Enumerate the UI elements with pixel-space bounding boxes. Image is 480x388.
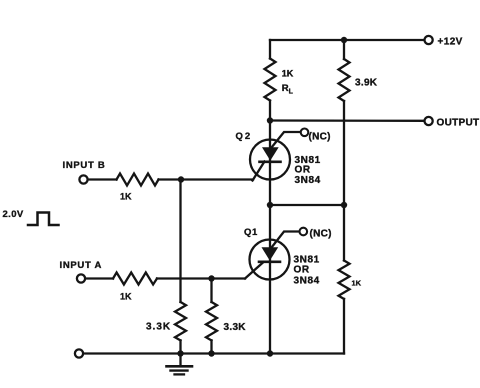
svg-text:3.9K: 3.9K [355,78,378,89]
terminal INPUT B [79,175,87,183]
svg-text:Q1: Q1 [244,227,258,238]
svg-text:INPUT A: INPUT A [60,260,103,271]
svg-text:3N84: 3N84 [294,276,320,287]
node junction input B / 3.3K [178,176,184,182]
terminal bottom left [75,349,83,357]
wire Q1 gate diagonal [245,262,264,279]
wire 3.9K top lead [343,40,345,59]
svg-text:OR: OR [295,165,311,176]
svg-text:1K: 1K [120,292,132,302]
transistor Q1 cathode bar [259,260,280,263]
wire Q1 anode-gate NC lead [272,232,300,248]
wire 3.3K left bottom lead [179,340,181,353]
transistor Q2 triangle [262,147,279,160]
node junction ground [177,350,183,356]
transistor Q2 cathode bar [260,161,281,164]
resistor RL 1K [265,59,276,101]
wire main vertical x=270 [269,101,271,354]
wire Q2 anode-gate NC lead [272,132,301,148]
wire 3.3K right branch vertical [210,279,212,303]
resistor 3.9K [339,59,350,101]
resistor 1K lower right [339,261,350,299]
svg-text:1K: 1K [120,192,132,202]
wire top rail +12V [270,39,424,41]
wire input A lead [85,277,113,279]
resistor 3.3K right [206,302,217,340]
resistor 1K input B [117,174,159,186]
wire input A to Q1 gate [157,277,245,279]
wire 3.9K branch down [343,101,345,261]
resistor 1K input A [113,273,157,285]
wire output rail [270,119,424,122]
resistor 3.3K left [175,302,186,340]
node junction 3.3K right bottom [208,350,214,356]
wire 1K bottom lead [343,299,345,354]
wire connector Q2 cathode to 3.9K branch [270,204,344,206]
wire input B lead [88,178,117,180]
svg-text:3N84: 3N84 [295,175,321,186]
terminal INPUT A [77,274,85,282]
svg-text:1K: 1K [282,69,294,79]
node junction main vertical bottom [267,350,273,356]
node junction right [341,202,347,208]
svg-text:INPUT B: INPUT B [63,160,106,171]
wire input B to Q2 gate [159,178,254,180]
svg-text:3.3K: 3.3K [224,322,247,333]
svg-text:OR: OR [294,265,310,276]
wire main vertical upper lead [269,40,271,59]
transistor Q2 circle [250,140,290,180]
node junction left [267,202,273,208]
svg-text:Q2: Q2 [236,131,253,142]
svg-text:OUTPUT: OUTPUT [437,118,480,129]
svg-text:(NC): (NC) [309,132,331,143]
pulse waveform symbol 2.0V [28,213,59,226]
svg-text:2.0V: 2.0V [3,209,24,220]
wire Q2 gate diagonal [253,162,265,181]
wire 3.3K right bottom lead [210,340,212,353]
svg-text:(NC): (NC) [310,229,332,240]
terminal +12V [425,36,433,44]
transistor Q1 circle [250,240,290,280]
terminal Q1 (NC) [300,228,308,236]
terminal Q2 (NC) [301,129,309,137]
node junction output [267,117,273,123]
ground [167,354,193,375]
terminal OUTPUT [425,117,433,125]
transistor Q1 triangle [262,247,279,260]
svg-text:+12V: +12V [438,37,463,48]
wire 3.3K left branch vertical [179,180,181,303]
svg-text:3.3K: 3.3K [146,322,171,333]
svg-text:RL: RL [282,83,294,96]
node junction input A / 3.3K right [208,275,214,281]
node junction 3.9K top [341,37,347,43]
svg-text:1K: 1K [352,279,362,288]
wire bottom rail [83,352,344,354]
